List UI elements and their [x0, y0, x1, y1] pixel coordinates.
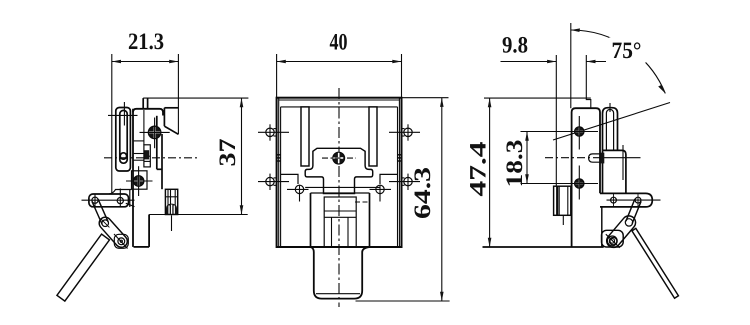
- LV body top edge: [133, 109, 163, 116]
- LV link plate: [97, 215, 130, 250]
- RV bracket circle left: [611, 197, 617, 203]
- RV link circle bottom: [609, 237, 616, 244]
- dim 64.3 line: [441, 98, 443, 301]
- dim 37 text (rotated): [215, 138, 241, 166]
- dim 37 bottom ext line: [149, 214, 248, 216]
- MV wall tick bars right: [398, 154, 402, 156]
- RV plunger outer: [603, 108, 618, 151]
- LV roller rod: [57, 234, 109, 301]
- svg-text:21.3: 21.3: [128, 29, 164, 55]
- LV body right edge: [156, 116, 158, 170]
- dim 40 ext line left: [276, 54, 278, 98]
- dim 9.8 text: [502, 33, 528, 59]
- dim 9.8 ext line left: [555, 55, 557, 186]
- LV lever arm lines: [92, 202, 102, 225]
- dim 18.3 bottom ext line: [521, 183, 565, 185]
- RV lever arm lines: [626, 199, 635, 221]
- LV bottom foot: [134, 246, 150, 248]
- MV central bolt: [333, 152, 345, 164]
- MV ceiling lines: [279, 99, 400, 101]
- MV dashed seg: [355, 201, 370, 203]
- LV link circle top: [102, 220, 109, 227]
- dim 75 deg text: [612, 38, 642, 64]
- LV inner slot: [120, 110, 127, 163]
- RV centerline solid right: [604, 157, 641, 159]
- dim 21.3 text: [128, 29, 164, 55]
- vertical centerline for 75 deg: [570, 23, 572, 108]
- arc arrow top: [571, 28, 580, 32]
- MV bottom cap: [311, 247, 370, 299]
- 75 deg reference angled line: [553, 103, 670, 141]
- dim 21.3 ext line right: [177, 54, 179, 134]
- LV slot bottom circle: [120, 153, 126, 159]
- dim 40 ext line right: [401, 54, 403, 98]
- RV screw2: [575, 179, 584, 188]
- MV left column: [301, 107, 309, 166]
- dim 37 line: [241, 98, 243, 214]
- LV bracket circle left: [92, 197, 98, 203]
- svg-text:37: 37: [215, 138, 241, 166]
- LV pivot diagonal tick: [114, 234, 128, 249]
- svg-text:18.3: 18.3: [502, 140, 528, 188]
- MV T-plate outline: [305, 148, 373, 193]
- MV gusset left: [281, 174, 298, 184]
- dim 64.3 bottom ext line: [356, 300, 450, 302]
- MV right column: [369, 107, 377, 166]
- dim 9.8 ext line right with step: [586, 55, 591, 108]
- LV top tab: [142, 98, 144, 109]
- dim 21.3 ext line left: [111, 54, 113, 194]
- dim 64.3 top ext line: [402, 97, 449, 99]
- dim 18.3 top ext line: [521, 131, 565, 133]
- LV bracket diagonal right end: [126, 203, 135, 206]
- dim 21.3 arrow left: [112, 60, 121, 64]
- dim 18.3 arrow top: [525, 132, 529, 141]
- LV screw1: [148, 126, 161, 139]
- RV bracket crosshair: [607, 199, 661, 201]
- dim 18.3 line: [526, 132, 528, 184]
- MV plate lower edge: [305, 186, 380, 188]
- LV screw2: [133, 176, 144, 187]
- MV side screw upper-left: [266, 128, 274, 136]
- dim 37 arrow bottom: [240, 205, 244, 214]
- dim 37 top ext line: [143, 97, 248, 99]
- LV dashed centerline: [104, 157, 198, 159]
- MV side screw upper-right: [404, 128, 412, 136]
- arc arrow bottom: [658, 85, 665, 94]
- RV bracket circle right: [635, 197, 641, 203]
- dim 40 arrow left: [277, 60, 286, 64]
- RV pivot diagonal tick: [606, 234, 620, 248]
- dim 47.4 arrow top: [488, 98, 492, 107]
- dim 21.3 line: [112, 61, 179, 63]
- dim 40 text: [330, 30, 348, 56]
- dim 40 arrow right: [392, 60, 401, 64]
- RV plunger base block: [603, 150, 626, 193]
- LV terminal centerline: [171, 215, 173, 231]
- svg-text:64.3: 64.3: [410, 167, 436, 219]
- dim 40 line: [277, 61, 402, 63]
- RV bracket: [600, 193, 652, 207]
- dim 47.4 top ext line: [484, 97, 591, 99]
- LV pin block: [144, 145, 150, 167]
- RV pivot circle: [607, 236, 617, 246]
- LV pivot plate: [114, 234, 128, 248]
- LV lever bracket: [89, 194, 129, 207]
- dim 64.3 text (rotated): [410, 167, 436, 219]
- LV body left edge: [132, 109, 134, 247]
- MV outer box: [277, 98, 402, 247]
- MV inner rect: [324, 197, 356, 247]
- svg-text:9.8: 9.8: [502, 33, 528, 59]
- LV link circle bottom: [118, 238, 125, 245]
- RV vertical center mark: [622, 145, 624, 180]
- MV side screw lower-left: [266, 177, 274, 185]
- RV pivot plate: [602, 230, 624, 247]
- dim 47.4 bottom ext line (includes right view body bottom): [483, 246, 604, 248]
- dim 64.3 arrow top: [440, 98, 444, 107]
- RV pin: [589, 154, 604, 162]
- svg-text:40: 40: [330, 30, 348, 56]
- MV side screw lower-right: [404, 177, 412, 185]
- MV wall tick bars left: [277, 154, 281, 156]
- MV plunger housing: [310, 193, 312, 247]
- RV terminal block: [554, 186, 571, 215]
- dim 47.4 text (rotated): [466, 141, 492, 196]
- RV roller rod: [632, 228, 678, 298]
- svg-text:47.4: 47.4: [466, 141, 492, 196]
- RV screw1: [575, 127, 584, 136]
- MV right wall inner lines: [398, 98, 400, 247]
- LV link tick top: [101, 219, 109, 227]
- dim 47.4 arrow bottom: [488, 238, 492, 247]
- MV left wall inner lines: [278, 98, 280, 247]
- dim 47.4 line: [489, 98, 491, 247]
- RV plunger inner tube: [606, 109, 613, 150]
- LV slot outer block: [116, 108, 131, 172]
- dim 37 arrow top: [240, 98, 244, 107]
- dim 18.3 arrow bottom: [525, 174, 529, 183]
- RV body: [572, 108, 600, 247]
- RV body lower right edge: [601, 207, 603, 247]
- LV bracket circle right: [117, 198, 123, 204]
- RV link plate: [604, 213, 638, 250]
- LV right flange: [164, 107, 178, 109]
- RV dashed centerline: [545, 157, 604, 159]
- dim 9.8 line left segment with arrow: [501, 61, 557, 63]
- dim 9.8 line right segment with arrow: [586, 61, 606, 63]
- dim 64.3 arrow bottom: [440, 292, 444, 301]
- dim 75 deg arc: [571, 30, 666, 93]
- LV screw2 square plate: [132, 171, 148, 189]
- RV plunger center tick: [609, 103, 611, 112]
- RV terminal centerline: [562, 215, 564, 225]
- svg-text:75°: 75°: [612, 38, 642, 64]
- LV slot top crosshair: [108, 114, 138, 116]
- LV terminal block striped: [165, 189, 177, 214]
- dim 21.3 arrow right: [169, 60, 178, 64]
- MV gusset right: [380, 174, 397, 184]
- RV link circle top: [625, 219, 632, 226]
- MV center line (dash-dot): [338, 88, 340, 307]
- white mask behind 75 deg text: [609, 38, 646, 63]
- dim 18.3 text (rotated): [502, 140, 528, 188]
- LV body bottom-left edge: [109, 190, 132, 195]
- LV bracket crosshair: [82, 199, 135, 201]
- MV cap inner line: [316, 293, 360, 295]
